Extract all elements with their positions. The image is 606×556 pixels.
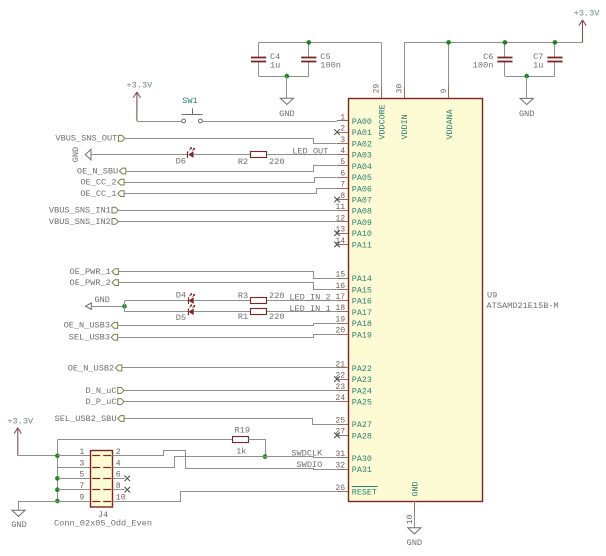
svg-text:OE_CC_1: OE_CC_1: [80, 189, 116, 199]
svg-text:LED_OUT: LED_OUT: [292, 147, 328, 157]
pin 24 PA25: [337, 401, 348, 403]
wire OE_CC_2 to PA05: [125, 178, 337, 183]
pin 6 PA05: [337, 177, 348, 179]
svg-text:D_P_uC: D_P_uC: [86, 397, 117, 407]
LED D5: [188, 309, 190, 316]
wire SW1 to PA00: [202, 121, 336, 123]
svg-text:7: 7: [340, 181, 345, 190]
svg-text:1u: 1u: [533, 61, 543, 71]
svg-text:PA03: PA03: [352, 151, 372, 161]
svg-text:8: 8: [340, 192, 345, 201]
wire VBUS_SNS_IN1 to PA08: [119, 210, 337, 212]
svg-text:LED_IN_2: LED_IN_2: [289, 293, 330, 303]
resistor R19 body: [233, 437, 249, 443]
pin 14 PA11: [337, 244, 348, 246]
capacitor C6: [504, 42, 506, 57]
svg-text:2: 2: [340, 125, 345, 134]
junction VDDANA: [446, 40, 451, 45]
svg-text:12: 12: [335, 214, 345, 223]
capacitor C4: [258, 42, 260, 57]
wire C6-C7 bottom: [505, 76, 555, 78]
svg-text:VBUS_SNS_IN2: VBUS_SNS_IN2: [49, 217, 111, 227]
svg-text:30: 30: [397, 84, 405, 94]
junction row1: [55, 454, 60, 459]
svg-text:32: 32: [335, 461, 345, 470]
pin 11 PA08: [337, 210, 348, 212]
svg-text:9: 9: [441, 88, 449, 93]
wire VDDANA vertical: [448, 42, 450, 86]
svg-text:ATSAMD21E15B-M: ATSAMD21E15B-M: [487, 301, 559, 311]
J4 pin bars row 2: [92, 467, 100, 469]
junction D4 D5 split: [122, 304, 127, 309]
svg-text:PA09: PA09: [352, 218, 372, 228]
no-connect pin 27: [334, 433, 340, 439]
wire vertical D4-D5: [124, 301, 126, 312]
pin 25 PA27: [337, 424, 348, 426]
svg-text:31: 31: [335, 450, 345, 459]
svg-text:20: 20: [335, 327, 345, 336]
svg-text:5: 5: [340, 158, 345, 167]
wire VDDCORE vertical: [381, 42, 383, 86]
pin 16 PA15: [337, 289, 348, 291]
svg-text:SEL_USB3: SEL_USB3: [69, 333, 110, 343]
power symbol GND left (D4 D5 row): [86, 303, 92, 310]
pin 4 PA03: [337, 154, 348, 156]
wire to R19: [57, 439, 232, 441]
svg-text:9: 9: [79, 493, 84, 502]
wire bus to pin5: [57, 478, 90, 480]
svg-text:U9: U9: [487, 291, 497, 301]
LED D4: [188, 297, 190, 304]
pin 3 PA02: [337, 143, 348, 145]
wire +3.3V top net: [404, 42, 583, 44]
pin 32 PA31: [337, 469, 348, 471]
no-connect pin 14: [334, 242, 340, 248]
svg-text:SW1: SW1: [182, 96, 197, 106]
svg-text:+3.3V: +3.3V: [7, 417, 34, 427]
svg-text:PA16: PA16: [352, 297, 372, 307]
switch SW1: [182, 119, 186, 123]
svg-text:24: 24: [335, 394, 345, 403]
svg-text:PA07: PA07: [352, 196, 372, 206]
svg-text:100n: 100n: [320, 61, 341, 71]
svg-text:LED_IN_1: LED_IN_1: [289, 304, 330, 314]
pin 17 PA16: [337, 300, 348, 302]
svg-text:PA25: PA25: [352, 398, 372, 408]
+3.3V power top right: [579, 20, 586, 43]
svg-text:VDDCORE: VDDCORE: [377, 104, 387, 139]
no-connect J4 pin 8: [125, 487, 131, 493]
svg-text:GND: GND: [411, 481, 421, 496]
svg-text:220: 220: [269, 312, 284, 322]
capacitor C5: [308, 42, 310, 57]
wire IC GND pin down: [414, 513, 416, 528]
pin 8 PA07: [337, 199, 348, 201]
svg-text:1: 1: [340, 113, 345, 122]
J4 pin bars row 5: [92, 501, 100, 503]
junction C6 top: [503, 40, 508, 45]
svg-text:PA06: PA06: [352, 184, 372, 194]
junction C5 top: [307, 40, 312, 45]
svg-text:16: 16: [335, 282, 345, 291]
no-connect pin 8: [334, 197, 340, 203]
wire OE_N_SBU to PA04: [126, 166, 337, 172]
svg-text:220: 220: [269, 157, 284, 167]
svg-text:19: 19: [335, 315, 345, 324]
pin 1 PA00: [337, 120, 348, 122]
wire to GND: [286, 76, 288, 98]
wire GND to junction: [91, 306, 124, 308]
svg-text:GND: GND: [407, 538, 422, 548]
svg-text:1: 1: [79, 448, 84, 457]
wire bus to pin7: [57, 489, 90, 491]
J4 pin bars row 1: [92, 455, 100, 457]
wire J4 pin4 to SWDCLK PA30: [113, 457, 337, 468]
no-connect pin 22: [334, 376, 340, 382]
wire +3.3V to bus: [18, 455, 58, 457]
svg-text:PA23: PA23: [352, 375, 372, 385]
pin 27 PA28: [337, 435, 348, 437]
no-connect J4 pin 6: [125, 476, 131, 482]
svg-text:GND: GND: [71, 147, 81, 162]
svg-text:PA17: PA17: [352, 308, 372, 318]
svg-text:PA18: PA18: [352, 319, 372, 329]
svg-text:PA01: PA01: [352, 128, 372, 138]
wire VBUS_SNS_OUT to PA02: [125, 139, 337, 144]
svg-text:PA00: PA00: [352, 117, 372, 127]
IC U9 (ATSAMD21E15B-M) body: [349, 99, 483, 502]
wire to D4: [125, 300, 189, 302]
ground below C6 C7: [520, 98, 533, 104]
svg-text:GND: GND: [519, 109, 534, 119]
pin 29 VDDCORE: [381, 87, 383, 99]
ground bottom left: [12, 510, 25, 516]
stub pin6: [113, 478, 125, 480]
svg-text:PA24: PA24: [352, 386, 372, 396]
svg-text:PA22: PA22: [352, 364, 372, 374]
svg-text:1u: 1u: [270, 61, 280, 71]
svg-text:25: 25: [335, 417, 345, 426]
wire OE_PWR_1 to PA14: [119, 272, 337, 279]
svg-text:OE_PWR_2: OE_PWR_2: [70, 278, 111, 288]
pin 23 PA24: [337, 390, 348, 392]
capacitor C7: [554, 42, 556, 57]
wire to GND right: [526, 76, 528, 98]
wire D6 to R2: [194, 154, 251, 156]
wire OE_N_USB3 to PA18: [118, 324, 337, 326]
svg-text:VBUS_SNS_IN1: VBUS_SNS_IN1: [49, 206, 111, 216]
svg-text:PA02: PA02: [352, 139, 372, 149]
svg-text:VDDANA: VDDANA: [445, 108, 455, 139]
wire D_P_uC to PA25: [124, 401, 337, 403]
svg-text:PA05: PA05: [352, 173, 372, 183]
wire R2 to PA03: [267, 154, 337, 156]
svg-text:R19: R19: [235, 425, 250, 435]
pin 5 PA04: [337, 165, 348, 167]
wire GND drop: [18, 501, 20, 510]
stub pin8: [113, 489, 125, 491]
wire VDDCORE net top: [259, 42, 382, 44]
svg-text:GND: GND: [94, 295, 109, 305]
pin 2 PA01: [337, 132, 348, 134]
wire bus to pin1: [57, 455, 90, 457]
svg-text:SWDIO: SWDIO: [297, 460, 323, 470]
svg-text:PA14: PA14: [352, 274, 372, 284]
wire R1 to PA17: [267, 311, 337, 313]
wire to D5: [125, 311, 189, 313]
svg-text:OE_PWR_1: OE_PWR_1: [70, 267, 111, 277]
svg-text:VDDIN: VDDIN: [400, 114, 410, 139]
svg-text:100n: 100n: [473, 61, 494, 71]
pin 19 PA18: [337, 323, 348, 325]
svg-text:PA04: PA04: [352, 162, 372, 172]
junction C7 top: [553, 40, 558, 45]
pin 22 PA23: [337, 379, 348, 381]
J4 pin bars row 3: [92, 478, 100, 480]
svg-text:5: 5: [79, 471, 84, 480]
no-connect pin 13: [334, 230, 340, 236]
J4 pin bars row 4: [92, 489, 100, 491]
connector J4 body: [91, 451, 113, 508]
wire SEL_USB2_SBU to PA27: [125, 419, 337, 425]
pin 10 GND: [414, 501, 416, 513]
junction SWDCLK: [263, 454, 268, 459]
wire row9 to GND: [19, 501, 58, 503]
pin 21 PA22: [337, 367, 348, 369]
ground below IC: [408, 528, 421, 534]
wire bus vertical J4 left: [57, 440, 59, 501]
svg-text:D5: D5: [176, 313, 186, 323]
pin 13 PA10: [337, 233, 348, 235]
svg-text:OE_N_SBU: OE_N_SBU: [77, 166, 118, 176]
wire R19 to SWDCLK: [249, 440, 266, 457]
svg-text:3: 3: [340, 136, 345, 145]
LED D6: [187, 151, 189, 158]
svg-text:OE_CC_2: OE_CC_2: [80, 178, 116, 188]
junction GND tap right: [524, 74, 529, 79]
wire OE_PWR_2 to PA15: [119, 283, 337, 290]
junction GND tap: [285, 74, 290, 79]
svg-text:220: 220: [269, 291, 284, 301]
svg-text:1k: 1k: [236, 446, 246, 456]
svg-text:10: 10: [116, 493, 126, 502]
svg-text:OE_N_USB2: OE_N_USB2: [68, 363, 114, 373]
wire D_N_uC to PA24: [124, 390, 337, 392]
svg-text:R2: R2: [238, 157, 248, 167]
wire VBUS_SNS_IN2 to PA09: [119, 221, 337, 223]
svg-text:29: 29: [374, 84, 382, 94]
svg-text:15: 15: [335, 271, 345, 280]
wire bus to pin3: [57, 467, 90, 469]
svg-text:PA28: PA28: [352, 431, 372, 441]
svg-text:PA30: PA30: [352, 454, 372, 464]
svg-text:PA08: PA08: [352, 207, 372, 217]
svg-text:+3.3V: +3.3V: [574, 9, 601, 19]
svg-text:D_N_uC: D_N_uC: [86, 386, 117, 396]
svg-text:+3.3V: +3.3V: [127, 81, 154, 91]
+3.3V power at SW1: [133, 92, 140, 121]
svg-text:R3: R3: [238, 291, 248, 301]
wire SEL_USB3 to PA19: [118, 335, 337, 338]
svg-text:OE_N_USB3: OE_N_USB3: [64, 321, 110, 331]
pin 12 PA09: [337, 221, 348, 223]
svg-text:PA31: PA31: [352, 465, 372, 475]
svg-text:23: 23: [335, 383, 345, 392]
svg-text:10: 10: [406, 514, 415, 524]
svg-text:GND: GND: [11, 520, 26, 530]
no-connect pin 2: [334, 129, 340, 135]
pin 9 VDDANA: [448, 87, 450, 99]
svg-text:6: 6: [340, 169, 345, 178]
pin 30 VDDIN: [404, 87, 406, 99]
wire J4 pin2 to SWDIO PA31: [113, 451, 337, 470]
wire R3 to PA16: [267, 300, 337, 302]
svg-text:11: 11: [335, 203, 345, 212]
svg-text:26: 26: [335, 484, 345, 493]
wire GND to D6: [91, 154, 188, 156]
ground below C4 C5: [280, 98, 293, 104]
wire bus to pin9: [57, 501, 90, 503]
svg-text:3: 3: [79, 459, 84, 468]
svg-text:21: 21: [335, 360, 345, 369]
svg-text:Conn_02x05_Odd_Even: Conn_02x05_Odd_Even: [54, 519, 152, 529]
svg-text:D4: D4: [176, 291, 186, 301]
svg-text:PA10: PA10: [352, 229, 372, 239]
junction row7: [55, 487, 60, 492]
wire VDDIN vertical: [404, 42, 406, 86]
svg-text:17: 17: [335, 293, 345, 302]
pin 20 PA19: [337, 334, 348, 336]
wire C4-C5 bottom: [259, 76, 309, 78]
wire D5 to R1: [194, 311, 251, 313]
svg-text:SEL_USB2_SBU: SEL_USB2_SBU: [55, 414, 117, 424]
svg-text:PA19: PA19: [352, 330, 372, 340]
junction row9: [55, 499, 60, 504]
junction row5: [55, 476, 60, 481]
svg-text:7: 7: [79, 482, 84, 491]
svg-text:R1: R1: [238, 312, 248, 322]
svg-text:PA27: PA27: [352, 420, 372, 430]
pin 18 PA17: [337, 311, 348, 313]
resistor R1 body: [251, 309, 267, 315]
+3.3V power at J4: [14, 428, 21, 456]
wire D4 to R3: [194, 300, 251, 302]
svg-text:D6: D6: [176, 157, 186, 167]
svg-text:GND: GND: [279, 109, 294, 119]
svg-text:PA15: PA15: [352, 285, 372, 295]
wire pin10 to RESET: [113, 492, 337, 502]
pin 15 PA14: [337, 278, 348, 280]
pin 26 RESET: [337, 491, 348, 493]
svg-text:SWDCLK: SWDCLK: [291, 448, 323, 458]
resistor R3 body: [251, 298, 267, 304]
pin 31 PA30: [337, 457, 348, 459]
wire OE_N_USB2 to PA22: [122, 367, 337, 369]
wire +3.3V to SW1: [137, 121, 182, 123]
power symbol GND left (LED row): [85, 149, 91, 160]
wire OE_CC_1 to PA06: [125, 189, 337, 194]
svg-text:PA11: PA11: [352, 240, 372, 250]
svg-text:VBUS_SNS_OUT: VBUS_SNS_OUT: [55, 134, 117, 144]
svg-text:4: 4: [340, 147, 345, 156]
svg-text:RESET: RESET: [352, 487, 377, 497]
svg-text:18: 18: [335, 304, 345, 313]
pin 7 PA06: [337, 188, 348, 190]
resistor R2 body: [251, 152, 267, 158]
